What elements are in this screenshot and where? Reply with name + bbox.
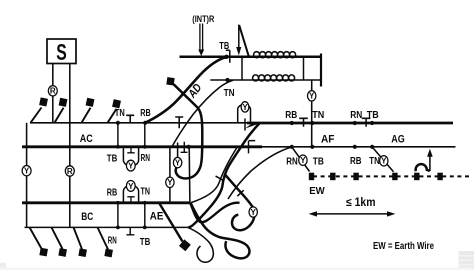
relay Y on AE hook — [249, 207, 257, 217]
feeder from AD flag through loop bond (thick hook) — [174, 84, 203, 178]
wire from box S left leg — [52, 64, 54, 123]
turnout AE wedge — [245, 123, 260, 128]
distance double arrow — [309, 211, 396, 216]
svg-text:EW = Earth Wire: EW = Earth Wire — [373, 241, 434, 252]
nodes right line 2 — [290, 145, 294, 149]
svg-text:TN: TN — [369, 155, 380, 167]
node AD joins siding — [224, 55, 228, 59]
mast flag at AD — [166, 77, 174, 85]
svg-text:AC: AC — [80, 133, 93, 145]
svg-text:RB: RB — [107, 186, 118, 198]
drop wire from siding box — [311, 80, 313, 147]
line 4 end curve with loop — [188, 227, 213, 262]
joint TN_ on line 1 — [126, 115, 134, 123]
mast flag 4 bottom — [98, 227, 113, 257]
svg-text:TN: TN — [115, 107, 125, 119]
coils on siding rail 1 — [254, 52, 296, 58]
mast flag mid bottom — [159, 203, 191, 251]
earth wire squares — [309, 173, 443, 181]
joints and nodes right line 1 — [299, 118, 308, 127]
siding end bar — [320, 54, 322, 87]
turnout branch to bond loop (thick) — [225, 174, 255, 230]
joint tick on branch — [237, 190, 243, 196]
svg-text:Y: Y — [175, 158, 181, 167]
siding rail 1 (thick) — [180, 56, 322, 59]
turnout AE curve (thick S with wide hook) — [188, 124, 259, 228]
relay R on left leg — [48, 86, 57, 96]
svg-text:Y: Y — [167, 178, 173, 187]
turnout TN curve (thin) — [172, 80, 233, 147]
joint on line 2 at 184 — [181, 142, 188, 153]
mast flag 2 bottom — [52, 227, 67, 256]
line 3 end curve with loop — [191, 203, 250, 259]
svg-text:RN: RN — [286, 156, 298, 168]
svg-text:TN: TN — [141, 185, 151, 197]
relay R on right leg — [65, 166, 74, 176]
rail AC bottom (line 2 left, thick) — [22, 145, 262, 148]
svg-text:BC: BC — [81, 211, 93, 223]
rail line 1 right (thick) — [247, 122, 453, 125]
svg-text:TB: TB — [219, 40, 229, 52]
rail AF/AG lower (line 2 right, thin) — [262, 146, 456, 148]
svg-text:Y: Y — [251, 208, 257, 217]
rail BC bottom (line 4, thin) — [25, 226, 189, 228]
svg-text:S: S — [56, 39, 67, 65]
earth wire bond hook arrow — [416, 149, 433, 171]
vertical connector siding rails — [241, 57, 243, 80]
svg-text:Y: Y — [128, 182, 134, 191]
svg-text:RB: RB — [285, 109, 297, 121]
svg-text:TB: TB — [313, 156, 324, 168]
svg-text:AE: AE — [150, 210, 164, 222]
svg-text:AF: AF — [321, 133, 335, 145]
svg-text:TN: TN — [312, 109, 324, 121]
left vertical wire — [26, 123, 28, 228]
impedance bond on line 1 — [238, 102, 251, 131]
svg-text:Y: Y — [128, 162, 134, 171]
svg-text:RN: RN — [350, 109, 362, 121]
earth wire dashed — [313, 175, 470, 177]
svg-text:R: R — [67, 167, 73, 176]
relay Y on left vertical — [22, 166, 31, 176]
crossover rail B (thin) — [191, 147, 237, 203]
mast flag 1 top — [31, 97, 48, 122]
wire joint verticals BC track — [118, 203, 145, 228]
EW connection RN diagonal — [292, 147, 310, 172]
crossover rail A to AF (thin) — [228, 147, 292, 199]
svg-text:RN: RN — [141, 152, 151, 164]
joint on line 1 at 179 — [175, 117, 183, 128]
mast flag 1 bottom — [30, 227, 48, 256]
node on line 1 — [116, 121, 120, 125]
node TN joins siding rail 2 — [225, 78, 229, 82]
stub with Y at 177.6 — [177, 143, 179, 158]
tuned bond below line 2 — [123, 147, 138, 171]
siding rail 2 (thin) — [210, 79, 321, 81]
watermark gray block — [0, 251, 474, 270]
box S — [47, 39, 76, 65]
svg-text:TN: TN — [224, 87, 235, 99]
rail BC top (line 3, thick) — [22, 201, 191, 204]
svg-text:(INT)R: (INT)R — [192, 14, 215, 24]
crossover link curve (thick smile) — [191, 203, 240, 223]
wire joint verticals AC track — [118, 123, 145, 147]
svg-text:RB: RB — [140, 107, 151, 119]
EW connection TN diagonal — [372, 147, 393, 172]
mast flag 4 top — [108, 99, 121, 123]
svg-text:AG: AG — [391, 133, 405, 145]
siding box vertical — [303, 57, 305, 80]
turnout AD curve (thick) — [145, 57, 226, 123]
svg-text:TB: TB — [367, 109, 379, 121]
svg-text:Y: Y — [300, 156, 306, 165]
relay Y on drop wire — [308, 91, 316, 101]
svg-text:TB: TB — [107, 152, 118, 164]
svg-text:Y: Y — [24, 167, 30, 176]
coils on siding rail 2 — [253, 75, 295, 81]
tuned bond above line 3 — [123, 181, 138, 203]
wire drop with Y at 169.9 — [169, 147, 171, 203]
svg-text:≤ 1km: ≤ 1km — [346, 197, 376, 209]
svg-text:Y: Y — [309, 92, 315, 101]
joint tick on crossover B — [216, 176, 223, 180]
svg-text:EW: EW — [309, 185, 325, 197]
joint on line 4 — [126, 227, 134, 234]
wire vertical at line2 dot to line3 end — [188, 147, 191, 203]
(INT)R feed arrow — [198, 24, 204, 57]
joint on line 2 at 248.5 — [249, 141, 256, 154]
mast flag 3 bottom — [74, 227, 87, 257]
svg-text:Y: Y — [381, 157, 387, 166]
joint TB on siding rail 1 — [226, 50, 230, 63]
node on line 1 at RB — [143, 121, 147, 125]
mast flag 2 top — [55, 98, 68, 123]
svg-text:RB: RB — [350, 155, 362, 167]
wire from box S right leg — [69, 64, 71, 228]
mast flag 3 top — [82, 98, 95, 123]
svg-text:R: R — [50, 87, 56, 96]
svg-text:RN: RN — [108, 234, 117, 246]
node on line 2 — [186, 145, 190, 149]
svg-text:Y: Y — [242, 103, 248, 112]
rail AC top (line 1 left, thin) — [30, 122, 247, 124]
signal arrow at siding — [236, 25, 248, 56]
svg-text:TB: TB — [140, 236, 151, 248]
